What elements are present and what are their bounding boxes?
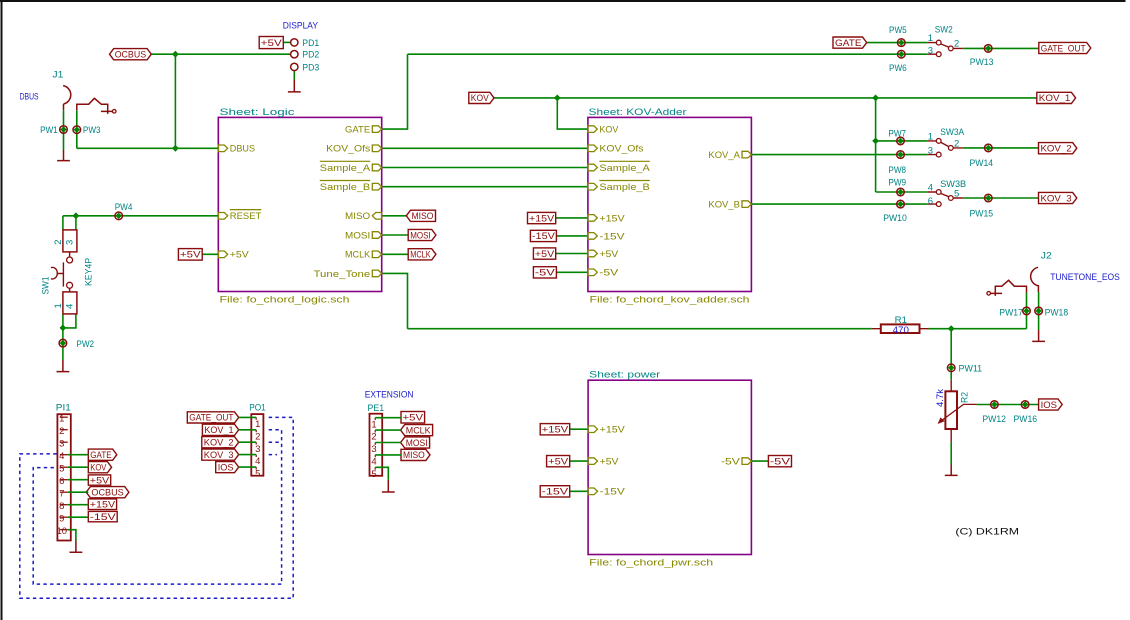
resistor R1 470 (872, 315, 929, 336)
svg-text:KOV: KOV (471, 93, 490, 104)
wire SW3B out to KOV_3 (963, 197, 1039, 199)
test point PW17 (999, 307, 1030, 318)
wire KOV net (494, 97, 1037, 99)
power symbol -15V at power sheet (540, 486, 570, 498)
svg-text:470: 470 (893, 325, 909, 336)
pin 3 of P11 (60, 441, 68, 443)
svg-text:3: 3 (255, 444, 260, 455)
svg-text:PW17: PW17 (999, 307, 1023, 318)
pin 2 of P01 (255, 430, 257, 432)
global label GATE (88, 449, 117, 461)
switch SW1 KEY4P (40, 230, 94, 314)
global label MCLK (408, 249, 436, 261)
svg-text:File: fo_chord_kov_adder.sch: File: fo_chord_kov_adder.sch (590, 295, 750, 306)
svg-text:5: 5 (954, 189, 959, 200)
wire PE1 pin 4 (375, 454, 401, 456)
wire P11 pin (68, 466, 89, 468)
svg-text:3: 3 (371, 444, 376, 455)
wire -5V to KOV-Adder (556, 271, 588, 273)
sheet pin KOV_Ofs (326, 144, 382, 155)
svg-text:SW1: SW1 (40, 277, 51, 295)
sheet pin Tune_Tone (314, 269, 382, 280)
svg-text:KOV_Ofs: KOV_Ofs (599, 144, 643, 155)
sheet pin KOV_A (708, 150, 751, 161)
pin 1 of P11 (60, 416, 68, 418)
svg-text:2: 2 (53, 240, 64, 245)
sheet pin +15V (588, 213, 625, 224)
power symbol +15V at KOV-Adder (528, 212, 556, 224)
wire R2 bottom to ground (950, 442, 952, 464)
test point PW8 (888, 151, 906, 176)
test point PW13 (970, 45, 994, 68)
svg-text:+5V: +5V (90, 475, 110, 486)
connector P01 (249, 403, 266, 480)
wire SW2 out to GATE_OUT (963, 47, 1039, 49)
svg-text:-15V: -15V (542, 487, 569, 498)
wire SW1 pin4 link (63, 314, 76, 328)
global label MOSI (408, 229, 436, 241)
wire -15V to power sheet (570, 490, 588, 492)
svg-text:Sample_A: Sample_A (320, 163, 371, 174)
wire P11 pin (68, 479, 89, 481)
global label MOSI (401, 437, 430, 449)
svg-text:PW9: PW9 (888, 178, 906, 189)
test point PW3 (73, 125, 101, 136)
svg-text:DBUS: DBUS (20, 91, 39, 102)
svg-text:1: 1 (59, 413, 64, 424)
wire KOV drop to sheet (557, 98, 588, 129)
svg-text:PD3: PD3 (302, 62, 319, 73)
global label MISO (406, 210, 435, 222)
pin 10 of P11 (60, 529, 68, 531)
svg-text:6: 6 (59, 476, 64, 487)
test point PW2 (59, 339, 94, 350)
sheet pin +5V (588, 457, 619, 468)
svg-text:KOV_2: KOV_2 (1041, 144, 1072, 155)
svg-text:3: 3 (65, 240, 76, 245)
wire DBUS to Logic sheet (77, 147, 219, 149)
svg-text:4: 4 (65, 304, 76, 309)
svg-text:KOV_3: KOV_3 (204, 450, 234, 461)
switch SW3A (927, 127, 965, 157)
svg-text:PW18: PW18 (1045, 307, 1069, 318)
svg-text:KEY4P: KEY4P (83, 258, 94, 286)
wire RESET net (63, 215, 218, 217)
svg-text:PW10: PW10 (883, 213, 907, 224)
global label KOV (88, 462, 111, 474)
global label OCBUS (86, 487, 129, 499)
wire SW1 pin1 to ground (62, 314, 64, 360)
sheet pin RESET (218, 210, 261, 223)
sheet KOV-Adder (588, 107, 752, 306)
sheet pin -15V (588, 487, 626, 498)
svg-text:MOSI: MOSI (406, 438, 428, 449)
pin 4 of PE1 (374, 455, 376, 457)
svg-text:PW3: PW3 (83, 125, 101, 136)
node RESET junction (73, 212, 80, 219)
wire P11 pin (68, 516, 89, 518)
pin 2 of P11 (60, 429, 68, 431)
pin 9 of P11 (60, 516, 68, 518)
wire P01 pin (239, 416, 257, 418)
wire MCLK (382, 253, 409, 255)
wire PE1 pin 3 (375, 442, 400, 444)
pin 3 of P01 (255, 442, 257, 444)
pin 5 of P11 (60, 466, 68, 468)
svg-text:KOV_1: KOV_1 (1039, 93, 1071, 104)
svg-text:2: 2 (255, 431, 260, 442)
svg-text:File: fo_chord_logic.sch: File: fo_chord_logic.sch (220, 295, 350, 306)
pin 2 of PE1 (374, 430, 376, 432)
svg-text:PW14: PW14 (970, 158, 994, 169)
svg-text:5: 5 (371, 469, 376, 480)
svg-text:MCLK: MCLK (345, 250, 371, 261)
svg-text:Sheet: KOV-Adder: Sheet: KOV-Adder (589, 107, 687, 118)
sheet pin Sample_A (320, 161, 382, 174)
sheet pin MOSI (345, 230, 382, 241)
global label KOV_1 (1037, 92, 1076, 104)
svg-text:Sheet: Logic: Sheet: Logic (220, 107, 295, 118)
svg-text:+15V: +15V (529, 213, 555, 224)
svg-text:5: 5 (255, 469, 260, 480)
global label IOS (216, 462, 239, 474)
wire PD3 to ground (293, 70, 295, 79)
power symbol +5V at Logic (178, 249, 202, 261)
svg-text:GATE_OUT: GATE_OUT (1041, 43, 1086, 54)
svg-text:-15V: -15V (599, 231, 625, 242)
pin 6 of P11 (60, 479, 68, 481)
sheet pin MISO (345, 211, 382, 222)
pin 5 of P01 (255, 467, 257, 469)
svg-text:1: 1 (928, 131, 933, 142)
svg-text:PW4: PW4 (115, 202, 133, 213)
svg-text:DBUS: DBUS (230, 144, 255, 155)
wire P11 pin (68, 504, 89, 506)
svg-text:PO1: PO1 (249, 403, 266, 414)
wire GATED to SW2 pin3 (382, 54, 928, 129)
svg-text:KOV_3: KOV_3 (1041, 193, 1072, 204)
ground at J2 (1032, 330, 1045, 341)
test point PW4 (115, 202, 133, 219)
wire P01 pin (239, 454, 257, 456)
wire -15V to KOV-Adder (556, 235, 588, 237)
wire OCBUS label to PD2 (151, 53, 291, 55)
svg-text:PI1: PI1 (56, 403, 71, 414)
test point PW9 (888, 178, 906, 196)
wire J1 sleeve to ground (63, 110, 65, 150)
svg-text:1: 1 (371, 419, 376, 430)
ground at J1 (57, 150, 70, 161)
svg-text:MISO: MISO (403, 450, 425, 461)
wire OCBUS vertical drop (174, 54, 176, 148)
svg-text:KOV_B: KOV_B (708, 200, 740, 211)
svg-text:PW8: PW8 (888, 165, 906, 176)
power symbol +15V at P11 (88, 499, 116, 511)
svg-text:TUNETONE_EOS: TUNETONE_EOS (1050, 272, 1120, 283)
svg-text:9: 9 (59, 513, 64, 524)
global label MISO (401, 449, 430, 461)
svg-text:PE1: PE1 (368, 403, 385, 414)
power symbol -15V at KOV-Adder (530, 230, 556, 242)
sheet pin -5V (721, 457, 751, 468)
wire P11 pin (68, 491, 89, 493)
pin 5 of PE1 (374, 467, 376, 469)
node KOV junction 2 (872, 95, 879, 102)
power symbol +5V at power sheet (547, 456, 570, 468)
power symbol -5V at KOV-Adder (533, 267, 556, 279)
connector PE1 (368, 403, 385, 480)
test point PW14 (970, 144, 994, 169)
sheet pin MCLK (345, 250, 382, 261)
global label MCLK (401, 425, 433, 437)
svg-text:GATE: GATE (345, 125, 370, 136)
svg-text:GATE: GATE (90, 450, 111, 461)
svg-text:PW16: PW16 (1014, 414, 1038, 425)
wire MISO (382, 215, 407, 217)
connector J2 (987, 251, 1052, 296)
wire +15V to power sheet (570, 428, 588, 430)
wire to SW3B pin4 (876, 191, 928, 193)
power symbol -5V out of power sheet (768, 456, 791, 468)
svg-text:8: 8 (59, 501, 64, 512)
svg-text:1: 1 (255, 419, 260, 430)
cable run P01 pin1 to P11 pin4 (dashed) (20, 417, 293, 598)
svg-text:PW1: PW1 (40, 125, 58, 136)
svg-text:PD1: PD1 (302, 38, 319, 49)
connector P11 (56, 403, 71, 541)
sheet pin Sample_B (588, 181, 650, 194)
switch SW2 (927, 25, 963, 57)
svg-text:5: 5 (59, 463, 64, 474)
cable stub P01 pin3 (dashed) (269, 441, 280, 443)
svg-text:Tune_Tone: Tune_Tone (314, 269, 371, 280)
wire KOV_Ofs between sheets (382, 147, 588, 149)
wire J2 sleeve to ground (1038, 292, 1040, 330)
svg-text:1: 1 (928, 33, 933, 44)
pin 4 of P01 (255, 455, 257, 457)
sheet pin -15V (588, 231, 626, 242)
wire SW3A out to KOV_2 (963, 147, 1039, 149)
cable stub P01 pin4 (dashed) (269, 454, 277, 456)
svg-text:3: 3 (928, 45, 933, 56)
power symbol +15V at power sheet (540, 424, 570, 436)
pin 8 of P11 (60, 504, 68, 506)
wire KOV_B to SW3B pin6 (751, 203, 927, 205)
svg-text:+5V: +5V (180, 250, 202, 261)
test point PW18 (1035, 307, 1068, 318)
ground at DISPLAY (288, 80, 301, 92)
svg-text:3: 3 (59, 438, 64, 449)
sheet power (588, 370, 751, 569)
svg-text:IOS: IOS (218, 462, 234, 473)
svg-text:-15V: -15V (90, 512, 117, 523)
svg-text:4: 4 (255, 456, 260, 467)
svg-text:Sample_A: Sample_A (599, 163, 650, 174)
wire P11 pin 10 to ground (68, 530, 76, 541)
svg-text:+5V: +5V (403, 412, 424, 423)
svg-text:-5V: -5V (535, 268, 556, 279)
svg-text:OCBUS: OCBUS (115, 50, 146, 61)
node SW3A junction (872, 138, 879, 145)
svg-text:GATE: GATE (835, 38, 862, 49)
wire to SW3A pin1 (876, 140, 928, 142)
svg-text:1: 1 (53, 303, 64, 308)
svg-text:J2: J2 (1041, 251, 1052, 262)
wire SW1 pin3 riser (75, 216, 77, 230)
wire +5V to Logic sheet (202, 253, 218, 255)
svg-text:PW6: PW6 (889, 63, 907, 74)
wire KOV vertical to switches (875, 98, 877, 192)
svg-text:+15V: +15V (599, 213, 625, 224)
sheet pin DBUS (218, 144, 255, 155)
svg-text:+5V: +5V (230, 250, 250, 261)
sheet pin Sample_A (588, 161, 651, 174)
global label GATE (833, 37, 867, 49)
sheet pin GATE (345, 125, 382, 136)
svg-text:RESET: RESET (230, 211, 262, 222)
svg-text:File: fo_chord_pwr.sch: File: fo_chord_pwr.sch (589, 558, 713, 569)
test point PW15 (970, 194, 994, 220)
cable run P01 pin2 to P11 pin5 (dashed) (33, 430, 281, 584)
ground at P11 (70, 541, 83, 553)
wire +15V to KOV-Adder (556, 217, 588, 219)
svg-text:+15V: +15V (542, 424, 569, 435)
test point PW12 (982, 401, 1006, 425)
wire PE1 pin 5 to ground (375, 467, 388, 480)
svg-text:Sample_B: Sample_B (599, 182, 649, 193)
power symbol +5V at P11 (88, 475, 110, 486)
svg-text:PW12: PW12 (982, 414, 1006, 425)
svg-text:KOV: KOV (599, 125, 619, 136)
svg-text:2: 2 (954, 138, 959, 149)
svg-text:7: 7 (59, 488, 64, 499)
svg-text:4: 4 (371, 457, 376, 468)
power symbol +5V at DISPLAY (259, 37, 283, 49)
wire P01 pin (239, 466, 257, 468)
global label IOS (1039, 399, 1063, 411)
svg-text:IOS: IOS (1041, 400, 1057, 411)
global label KOV_3 (202, 449, 239, 461)
sheet pin KOV_B (708, 200, 751, 211)
global label GATE_OUT (187, 412, 238, 424)
svg-text:KOV_1: KOV_1 (204, 425, 233, 436)
svg-text:10: 10 (57, 526, 68, 537)
svg-text:J1: J1 (52, 70, 63, 81)
test point PW7 (888, 129, 906, 145)
svg-text:KOV_2: KOV_2 (204, 438, 234, 449)
sheet pin +5V (588, 249, 619, 260)
svg-text:OCBUS: OCBUS (91, 488, 123, 499)
svg-text:MOSI: MOSI (345, 230, 370, 241)
node SW1 bottom junction (60, 325, 67, 332)
wire GATE label to SW2 pin1 (867, 42, 928, 44)
wire P01 pin (239, 441, 257, 443)
wire P01 pin (239, 429, 257, 431)
svg-text:4.7k: 4.7k (935, 389, 946, 407)
switch SW3B (927, 179, 966, 207)
svg-text:-15V: -15V (532, 231, 556, 242)
test point PW10 (883, 200, 907, 224)
svg-text:MISO: MISO (345, 211, 370, 222)
svg-text:2: 2 (371, 432, 376, 443)
test point PW11 (947, 364, 982, 375)
svg-text:-5V: -5V (770, 456, 791, 467)
wire KOV_A to SW3A pin3 (751, 154, 927, 156)
svg-text:2: 2 (59, 426, 64, 437)
svg-text:+5V: +5V (599, 249, 619, 260)
svg-text:PW5: PW5 (889, 25, 907, 36)
sheet pin -5V (588, 268, 619, 279)
svg-text:4: 4 (928, 182, 933, 193)
svg-text:SW3A: SW3A (940, 127, 965, 138)
svg-text:+5V: +5V (261, 38, 283, 49)
svg-text:-15V: -15V (600, 487, 626, 498)
sheet pin KOV (588, 125, 619, 136)
svg-text:GATE_OUT: GATE_OUT (189, 413, 233, 424)
pin 1 of PE1 (374, 418, 376, 420)
svg-text:+5V: +5V (548, 456, 569, 467)
wire R1 to J2 tip (929, 293, 1027, 329)
svg-text:KOV_A: KOV_A (708, 150, 740, 161)
svg-text:R2: R2 (960, 392, 971, 403)
wire PE1 pin 2 (375, 429, 400, 431)
svg-text:PW15: PW15 (970, 209, 994, 220)
test point PW1 (40, 125, 67, 136)
wire MOSI (382, 234, 409, 236)
sheet pin Sample_B (320, 181, 382, 194)
svg-text:PD2: PD2 (302, 50, 319, 61)
test point PW5 (889, 25, 907, 46)
wire +5V to PD1 (283, 41, 291, 43)
svg-text:4: 4 (59, 451, 64, 462)
wire power sheet -5V out (751, 460, 768, 462)
wire Tune_Tone to R1 (382, 273, 872, 328)
global label KOV_2 (202, 437, 239, 449)
wire +5V to KOV-Adder (556, 253, 588, 255)
wire R2 wiper to IOS (977, 404, 1039, 406)
wire +5V to power sheet (570, 460, 588, 462)
wire P11 pin (68, 454, 89, 456)
svg-text:KOV: KOV (90, 463, 107, 474)
sheet pin +5V (218, 250, 249, 261)
svg-text:(C) DK1RM: (C) DK1RM (955, 527, 1019, 538)
svg-text:EXTENSION: EXTENSION (365, 389, 414, 400)
sheet Logic (218, 107, 381, 306)
svg-text:PW7: PW7 (888, 129, 906, 140)
global label KOV_1 (202, 424, 238, 436)
svg-text:-5V: -5V (599, 268, 619, 279)
test point PW6 (889, 50, 907, 73)
global label KOV (469, 92, 494, 104)
power symbol +5V at KOV-Adder (533, 248, 555, 260)
global label OCBUS (110, 49, 152, 61)
sheet pin +15V (588, 425, 625, 436)
wire junction to R2 (950, 329, 952, 380)
wire Sample_A between sheets (382, 167, 588, 169)
node R1 output junction (948, 325, 955, 332)
global label KOV_3 (1039, 192, 1077, 204)
node OCBUS junction (172, 51, 179, 58)
test point PW16 (1014, 401, 1038, 425)
wire PW3 to DBUS (76, 110, 78, 148)
svg-text:MOSI: MOSI (410, 230, 431, 241)
pin 3 of PE1 (374, 443, 376, 445)
connector DISPLAY pads PD1 PD2 PD3 (283, 20, 320, 73)
ground at SW1 (57, 360, 70, 372)
svg-text:PW2: PW2 (76, 339, 94, 350)
svg-text:2: 2 (954, 38, 959, 49)
svg-text:6: 6 (928, 196, 933, 207)
